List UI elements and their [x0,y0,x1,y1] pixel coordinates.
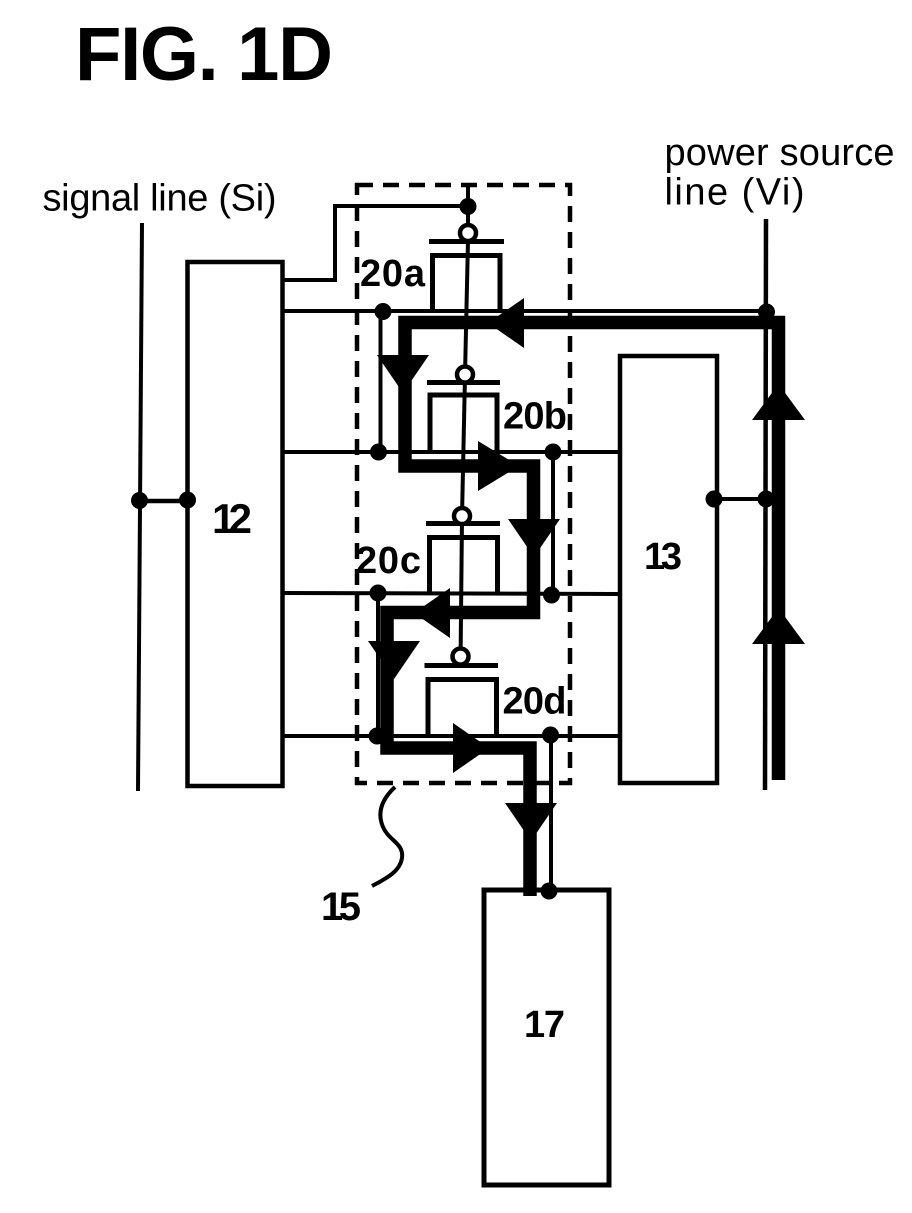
svg-text:20b: 20b [503,396,567,438]
transistor 20b [427,367,567,453]
arrow left on third run [414,588,450,638]
arrow right on second run [478,441,519,491]
gate bar 20d [425,663,499,668]
svg-text:15: 15 [321,885,361,929]
node L4 left [369,728,386,745]
box 13 [620,356,717,783]
thick current path [387,323,779,897]
gate bar 20c [426,521,500,526]
node L3 left [370,585,387,602]
svg-text:FIG. 1D: FIG. 1D [75,12,333,97]
gate bubble 20a [460,225,476,241]
node L2 left [370,444,387,461]
arrow left on top run [488,298,524,348]
box 12 [188,262,283,786]
wire level 1 [282,309,766,313]
power source line thin [765,219,766,790]
arrow down to box 17 [505,803,557,841]
arrow down on second drop [508,519,560,557]
gate wire from box 12 [282,206,466,280]
node on box 12 edge [179,492,196,509]
wire vertical L1-L2 [379,311,383,452]
arrow right on fourth run [453,723,489,773]
transistor 20c [356,508,500,594]
node gate top [460,198,477,215]
wire box 13 to power line [714,497,766,501]
dashed box 15 [357,185,570,783]
wire vertical L2-L3 [551,452,555,594]
node L3 right [543,587,560,604]
box 17 [484,890,609,1185]
wire level 3 [282,593,620,594]
transistor 20a [360,225,504,311]
svg-text:17: 17 [524,1004,565,1046]
wire level 4 [282,734,620,738]
arrow down on first drop [377,355,429,393]
wire signal line to box 12 [139,499,188,504]
arrow up upper on power line [752,384,805,420]
svg-text:20c: 20c [356,540,421,582]
wire vertical L3-L4 [376,593,380,736]
wire vertical L4-box17 [549,736,553,891]
transistor 20d [425,649,567,737]
gate bubble 20d [453,649,469,665]
svg-text:line (Vi): line (Vi) [665,172,805,214]
node on box 13 edge [706,491,723,508]
signal line Si [138,223,142,791]
node box 17 top [541,883,558,900]
svg-text:20d: 20d [503,681,567,723]
svg-text:20a: 20a [360,253,426,295]
node on signal line [131,492,148,509]
svg-text:12: 12 [212,495,252,542]
common gate line [461,185,469,665]
channel 20b [430,395,497,452]
channel 20d [428,680,497,737]
node on power line [758,491,775,508]
leader squiggle for 15 [372,787,402,886]
gate bar 20a [429,239,504,244]
node L1 [375,303,392,320]
node power junction [758,304,775,321]
wire level 2 [282,450,620,454]
channel 20a [433,256,501,312]
svg-text:power source: power source [665,132,895,174]
node L4 right [542,727,559,744]
channel 20c [430,538,498,595]
gate bubble 20b [457,367,473,383]
arrow up lower on power line [752,608,805,644]
gate bubble 20c [454,508,470,524]
node L2 right [545,444,562,461]
gate bar 20b [427,380,500,385]
svg-text:13: 13 [644,536,682,578]
arrow down on third drop [368,641,420,679]
svg-text:signal line (Si): signal line (Si) [43,178,277,220]
